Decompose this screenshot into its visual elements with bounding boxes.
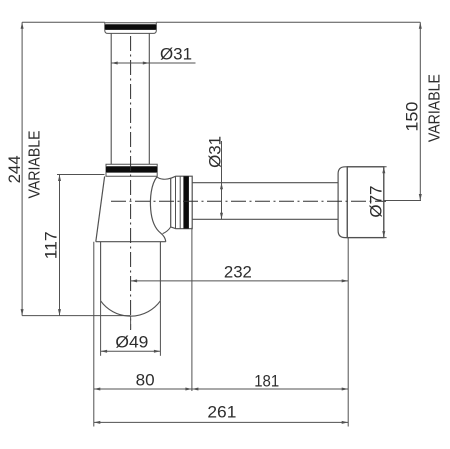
joint line body/cup bbox=[96, 241, 166, 243]
body cone left edge bbox=[96, 176, 105, 241]
dimension 117 label bbox=[42, 231, 61, 259]
dimension 117 ext line top bbox=[57, 174, 105, 176]
dimension 150 line bbox=[419, 22, 422, 200]
dimension dia77 line bbox=[382, 167, 385, 238]
dimension 244 line bbox=[21, 22, 24, 315]
top ext line y=22.3 (left part) bbox=[22, 21, 105, 23]
svg-text:VARIABLE: VARIABLE bbox=[27, 131, 44, 199]
dimension 181 label bbox=[254, 371, 279, 390]
dimension 150 ext line bbox=[384, 200, 421, 202]
dimension 80 label bbox=[136, 371, 155, 390]
svg-text:Ø49: Ø49 bbox=[115, 333, 148, 352]
inlet tube right wall bbox=[148, 33, 150, 164]
dimension 150 label bbox=[402, 102, 421, 132]
vertical centreline of trap bbox=[130, 36, 132, 330]
outlet nut N3 outline bbox=[171, 176, 193, 229]
svg-text:Ø31: Ø31 bbox=[206, 136, 225, 168]
wall flange cap bbox=[338, 167, 347, 238]
svg-text:Ø77: Ø77 bbox=[366, 186, 385, 218]
body nut N2 (lower) outline bbox=[106, 164, 157, 176]
svg-text:80: 80 bbox=[136, 371, 155, 390]
ext line mid x=191.9 bbox=[191, 228, 193, 392]
svg-text:244: 244 bbox=[5, 155, 24, 183]
dimension 232 line bbox=[131, 279, 349, 282]
body-to-nut bottom fillet bbox=[163, 227, 171, 234]
label VARIABLE left bbox=[27, 131, 44, 199]
dimension 261 line bbox=[94, 421, 348, 424]
dimension dia77 label bbox=[366, 186, 385, 218]
svg-text:117: 117 bbox=[42, 231, 61, 259]
svg-text:261: 261 bbox=[207, 403, 236, 422]
dimension 117 line bbox=[58, 175, 61, 316]
svg-text:232: 232 bbox=[224, 263, 252, 282]
cup bottom arc bbox=[101, 301, 161, 316]
dimension dia49 label bbox=[115, 333, 148, 352]
cup left wall bbox=[100, 242, 102, 301]
dimension dia49 line bbox=[101, 350, 161, 353]
dimension dia31 top label bbox=[160, 45, 192, 64]
outlet nut inner line 2 bbox=[179, 176, 181, 228]
dimension dia77 ext ticks bbox=[347, 167, 386, 238]
top ext line y=22.3 (right part) bbox=[156, 21, 420, 23]
dimension 80-181 line bbox=[94, 388, 348, 391]
svg-text:Ø31: Ø31 bbox=[160, 45, 192, 64]
dimension dia49 ext left bbox=[100, 301, 102, 356]
cup centreline ext below arc bbox=[130, 316, 132, 329]
dimension dia31 pipe label bbox=[206, 136, 225, 168]
body nut N2 black band bbox=[106, 166, 157, 172]
dimension dia31 top line bbox=[111, 62, 195, 65]
cup right wall bbox=[159, 242, 161, 301]
inlet tube left wall bbox=[110, 33, 112, 164]
svg-text:VARIABLE: VARIABLE bbox=[426, 74, 443, 142]
outlet pipe bottom wall bbox=[192, 218, 338, 220]
bottom ext line y=315.6 bbox=[22, 315, 131, 317]
body shoulder top curve bbox=[157, 177, 171, 180]
ext line right x=348.2 bbox=[347, 238, 349, 427]
inlet nut N1 black band bbox=[105, 24, 157, 30]
dimension 232 label bbox=[224, 263, 252, 282]
dimension dia31 pipe line bbox=[220, 141, 223, 219]
label VARIABLE right bbox=[426, 74, 443, 142]
dimension dia49 ext right bbox=[159, 301, 161, 356]
outlet nut black ring bbox=[183, 176, 189, 228]
svg-text:150: 150 bbox=[402, 102, 421, 132]
inlet nut N1 (top) outline bbox=[105, 23, 157, 34]
ext line left x=93.8 bbox=[93, 242, 95, 427]
wall flange body bbox=[347, 167, 384, 238]
outlet nut inner line 1 bbox=[175, 176, 177, 228]
body waist curve (right profile) bbox=[150, 177, 165, 242]
horizontal centreline of outlet bbox=[111, 200, 386, 202]
dimension 244 label bbox=[5, 155, 24, 183]
outlet pipe top wall bbox=[192, 182, 338, 184]
svg-text:181: 181 bbox=[254, 371, 279, 390]
dimension 261 label bbox=[207, 403, 236, 422]
